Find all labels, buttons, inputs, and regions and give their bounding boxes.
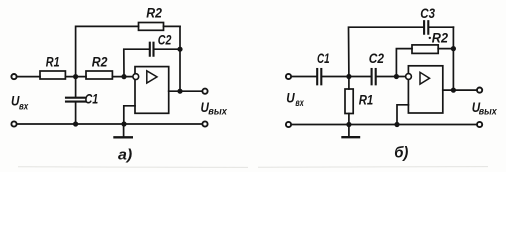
junction dot C1-bottom rail (a): [73, 121, 78, 126]
svg-text:R1: R1: [359, 93, 374, 108]
capacitor C1 plates (a): [66, 97, 85, 99]
label U input (a): [11, 94, 29, 113]
output terminal top (a): [202, 89, 207, 94]
resistor R2 feedback (b): [412, 45, 438, 54]
op-amp U2 triangle symbol (b): [420, 72, 430, 84]
capacitor C2 right lead (a): [154, 48, 180, 50]
junction dot C2-feedback (a): [177, 47, 182, 52]
capacitor C1 bottom lead (a): [75, 103, 77, 124]
node C junction dot (b): [346, 74, 351, 79]
op-amp U2 output wire (b): [443, 89, 477, 91]
capacitor C2 left riser (a): [124, 49, 150, 76]
svg-text:R2: R2: [92, 55, 108, 70]
svg-text:C2: C2: [369, 51, 385, 66]
ground bar (a): [115, 136, 132, 138]
speck before R2 label (b): [429, 37, 431, 39]
feedback vertical wire (b): [452, 27, 454, 90]
svg-text:C1: C1: [317, 51, 330, 66]
svg-text:R2: R2: [432, 31, 449, 46]
node D junction dot (b): [394, 74, 399, 79]
junction dot ground-bottom rail (a): [121, 121, 126, 126]
junction dot R1-ground (b): [346, 122, 351, 127]
resistor R1 (a): [40, 71, 65, 79]
input terminal top (b): [286, 74, 291, 79]
label U input (b): [286, 90, 304, 109]
resistor R1 top lead (b): [348, 77, 350, 90]
output terminal bottom (b): [477, 122, 482, 127]
op-amp U2 inverting input bubble (b): [406, 74, 412, 80]
capacitor C3 left riser (b): [349, 27, 424, 76]
ground stem (a): [123, 124, 125, 136]
capacitor C2 plates (b): [371, 69, 373, 84]
resistor R2 feedback (a): [139, 23, 164, 31]
resistor R2 feedback left riser (b): [396, 49, 412, 77]
svg-text:R2: R2: [146, 6, 162, 21]
svg-text:вх: вх: [19, 101, 29, 112]
wire R2 feedback to vertical (a): [164, 25, 181, 27]
svg-text:C3: C3: [420, 6, 435, 21]
junction dot R2-feedback (b): [451, 46, 456, 51]
op-amp U2 non-inverting input wire (b): [397, 105, 408, 125]
svg-text:R1: R1: [46, 55, 60, 70]
wire R1 to node A (a): [65, 76, 86, 78]
capacitor C1 top lead (a): [75, 77, 77, 97]
wire bottom rail (b): [292, 124, 477, 126]
output terminal top (b): [477, 88, 482, 93]
input terminal bottom (b): [286, 122, 291, 127]
op-amp U1 output wire (a): [169, 90, 202, 92]
op-amp U1 inverting input bubble (a): [133, 74, 139, 80]
wire R2 to vertical (b): [438, 48, 453, 50]
input terminal bottom (a): [11, 121, 16, 126]
ground bar (b): [343, 136, 360, 138]
output node junction dot (b): [451, 88, 456, 93]
input terminal top (a): [11, 74, 16, 79]
svg-text:вх: вх: [295, 98, 304, 109]
capacitor C3 right lead (b): [429, 26, 453, 28]
svg-text:б): б): [394, 145, 408, 162]
output node junction dot (a): [177, 89, 182, 94]
svg-text:вых: вых: [479, 106, 497, 117]
faint scan smudge bottom edge: [18, 166, 488, 169]
feedback vertical wire (a): [179, 26, 181, 91]
wire C2 to node D (b): [377, 76, 406, 78]
node A junction dot (a): [73, 74, 78, 79]
wire input top rail (a): [17, 76, 40, 78]
feedback R2 left riser (a): [76, 26, 139, 76]
wire bottom rail (a): [17, 123, 202, 125]
op-amp U2 body (b): [408, 66, 442, 113]
svg-text:U: U: [286, 90, 295, 106]
op-amp U1 triangle symbol (a): [147, 71, 157, 83]
resistor R1 bottom lead (b): [348, 114, 350, 125]
label U output (a): [201, 100, 228, 118]
wire input to C1 (b): [292, 76, 317, 78]
op-amp U1 non-inverting input wire (a): [124, 106, 135, 124]
capacitor C2 plates (a): [149, 43, 151, 56]
output terminal bottom (a): [202, 121, 207, 126]
resistor R2 series (a): [86, 71, 112, 79]
capacitor C1 plates (b): [316, 69, 318, 84]
op-amp U1 body (a): [135, 67, 169, 114]
svg-text:C1: C1: [85, 92, 99, 107]
wire R2 to node B (a): [112, 76, 132, 78]
wire C1 to node C (b): [322, 76, 370, 78]
label U output (b): [472, 100, 497, 118]
resistor R1 (b): [345, 89, 353, 114]
svg-text:а): а): [118, 146, 132, 163]
svg-text:C2: C2: [158, 32, 172, 47]
svg-text:вых: вых: [208, 107, 227, 118]
ground stem (b): [348, 125, 350, 137]
node B junction dot (a): [121, 74, 126, 79]
capacitor C3 plates (b): [423, 21, 425, 34]
junction dot non-inv input rail (b): [394, 122, 399, 127]
